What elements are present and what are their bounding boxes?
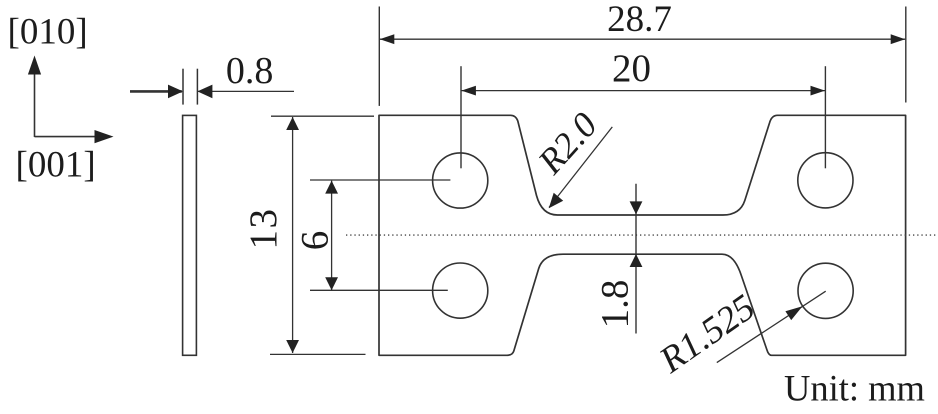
hole bottom-right — [798, 263, 853, 318]
dimension 28.7 value — [607, 0, 672, 40]
leader line R1.525 — [717, 291, 826, 362]
dimension 0.8 tick left — [182, 69, 184, 105]
axis label [010] — [8, 12, 88, 53]
leader line R2.0 — [549, 127, 613, 208]
unit note — [784, 367, 925, 408]
dimension 0.8 tick right — [196, 69, 198, 105]
label R1.525 — [652, 287, 763, 382]
dimension 13 value — [242, 208, 285, 250]
specimen outline — [379, 115, 906, 355]
svg-text:1.8: 1.8 — [594, 280, 637, 329]
dimension 28.7 extension line left — [378, 7, 380, 106]
dimension 0.8 left leader line — [130, 85, 183, 99]
dimension 0.8 value — [226, 50, 274, 92]
dimension 20 hole centre line right — [824, 66, 826, 168]
axis arrow [010] vertical — [28, 56, 41, 138]
axis label [001] — [16, 145, 96, 186]
label R2.0 — [530, 105, 605, 182]
dimension 28.7 extension line right — [905, 7, 907, 103]
svg-text:[001]: [001] — [16, 145, 96, 186]
dimension 1.8 value — [594, 280, 637, 329]
svg-text:Unit: mm: Unit: mm — [784, 367, 925, 408]
axis arrow [001] horizontal — [35, 130, 114, 143]
hole bottom-left — [433, 263, 488, 318]
dimension 6 extension line bottom — [310, 289, 448, 291]
svg-text:13: 13 — [242, 208, 285, 250]
dimension 20 value — [612, 47, 651, 90]
dimension 20 line — [461, 86, 825, 96]
svg-text:R1.525: R1.525 — [652, 287, 763, 382]
dimension 6 extension line top — [310, 179, 450, 181]
dimension 1.8 line — [630, 184, 643, 334]
side view plate rectangle — [183, 115, 197, 355]
dimension 6 value — [294, 231, 337, 251]
dimension 13 extension line top — [271, 115, 374, 117]
svg-text:[010]: [010] — [8, 12, 88, 53]
hole top-left — [433, 153, 488, 208]
hole top-right — [798, 153, 853, 208]
svg-text:0.8: 0.8 — [226, 50, 274, 92]
dimension 20 hole centre line left — [460, 66, 462, 168]
dimension 0.8 right leader line — [197, 85, 294, 99]
dimension 13 line — [286, 117, 299, 353]
dotted centerline — [346, 234, 937, 236]
svg-text:6: 6 — [294, 231, 337, 251]
dimension 6 line — [325, 181, 338, 291]
svg-text:28.7: 28.7 — [607, 0, 672, 40]
dimension 13 extension line bottom — [270, 353, 366, 355]
svg-text:R2.0: R2.0 — [530, 105, 605, 182]
dimension 28.7 line — [380, 34, 905, 44]
svg-text:20: 20 — [612, 47, 651, 90]
